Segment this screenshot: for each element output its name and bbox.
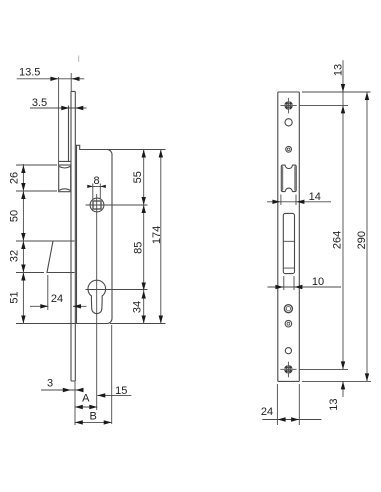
svg-text:26: 26: [8, 172, 20, 184]
dimension 24 backset: [30, 304, 87, 308]
dimension 13 top and 264 line: [341, 60, 345, 369]
bolt cutout: [283, 213, 294, 273]
bottom screw: [280, 362, 296, 378]
svg-text:3: 3: [47, 378, 53, 390]
svg-text:8: 8: [93, 175, 99, 187]
svg-text:A: A: [82, 393, 90, 405]
latch bolt: [47, 241, 75, 310]
svg-text:13: 13: [332, 64, 344, 76]
svg-text:55: 55: [132, 171, 144, 183]
right view extension lines: [300, 92, 372, 381]
svg-text:34: 34: [131, 301, 143, 313]
svg-text:15: 15: [115, 385, 127, 397]
dimension A: [75, 381, 98, 425]
circle hole: [285, 119, 292, 126]
dimension 3.5: [30, 106, 87, 110]
plain hole lower: [285, 348, 291, 354]
svg-text:13: 13: [328, 398, 340, 410]
dimension 14: [267, 195, 331, 206]
faceplate front view: [278, 92, 300, 381]
svg-text:B: B: [90, 411, 97, 423]
dimension 24 plate width: [262, 384, 321, 425]
top screw: [281, 98, 297, 114]
svg-text:264: 264: [331, 231, 343, 249]
grub hole double circle: [284, 305, 292, 313]
dimension 290 line: [365, 92, 369, 382]
left extension lines: [16, 165, 76, 324]
roller cutout front view: [281, 165, 296, 192]
svg-text:3.5: 3.5: [32, 97, 47, 109]
dimension 10: [268, 276, 342, 290]
svg-text:10: 10: [312, 276, 324, 288]
faceplate side view: [71, 73, 75, 381]
countersunk hole lower: [285, 320, 292, 327]
roller side view: [59, 165, 71, 192]
lock body: [77, 145, 113, 323]
svg-text:14: 14: [309, 191, 321, 203]
svg-text:24: 24: [51, 293, 63, 305]
dimension B: [75, 325, 112, 425]
svg-text:85: 85: [133, 242, 145, 254]
roller bracket: [59, 106, 71, 162]
chain 174: [159, 150, 163, 324]
svg-text:13.5: 13.5: [19, 67, 40, 79]
dimension 13.5: [17, 77, 85, 81]
stub line top: [78, 56, 80, 63]
left dimension chain line: [21, 164, 25, 324]
svg-text:174: 174: [151, 226, 163, 244]
svg-text:32: 32: [9, 250, 21, 262]
svg-text:51: 51: [9, 291, 21, 303]
right chain 55 85 34: [142, 150, 146, 324]
dimension 8: [87, 184, 106, 200]
dimension 15: [97, 393, 131, 397]
svg-text:24: 24: [261, 406, 273, 418]
dimension 3: [41, 388, 84, 392]
euro cylinder hole: [86, 280, 148, 313]
spindle follower: [86, 194, 148, 410]
svg-text:50: 50: [9, 210, 21, 222]
dimension 13 bottom: [341, 381, 345, 397]
small countersunk hole: [286, 146, 292, 152]
roller face extension line: [58, 77, 60, 165]
svg-text:290: 290: [356, 231, 368, 249]
right extension lines left view: [107, 150, 166, 324]
